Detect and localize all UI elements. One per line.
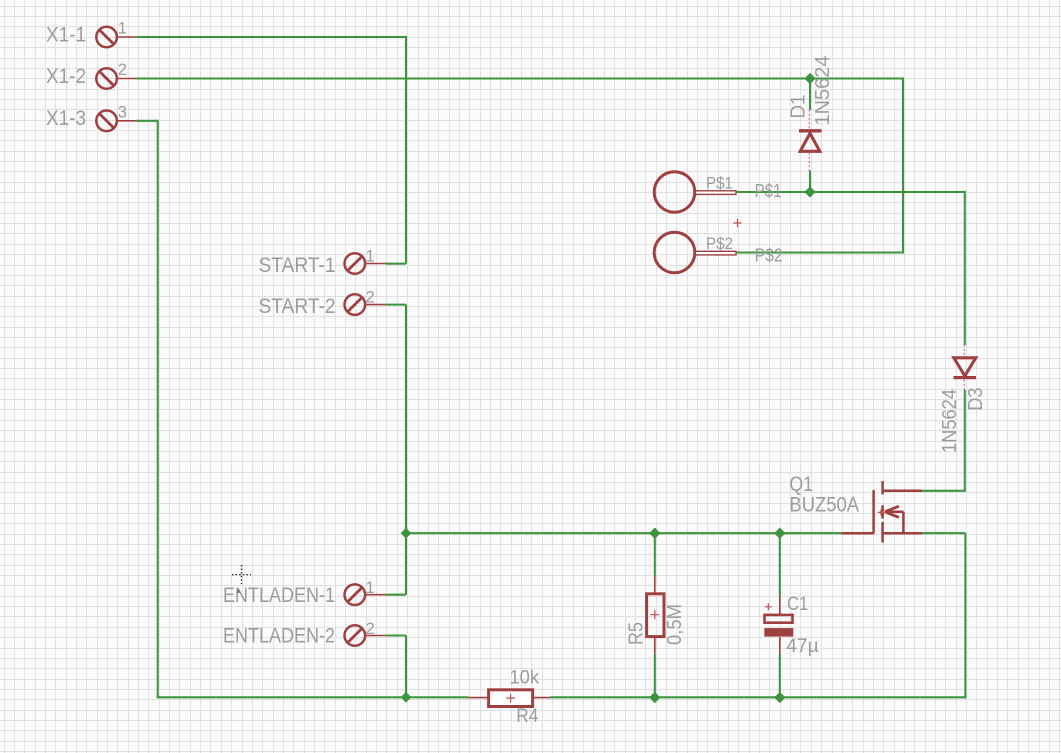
svg-text:ENTLADEN-1: ENTLADEN-1	[223, 583, 335, 607]
terminal START-2	[345, 294, 386, 315]
svg-text:0,5M: 0,5M	[664, 604, 686, 645]
wire R5 top segment	[654, 533, 656, 576]
resistor R5	[647, 577, 664, 655]
svg-text:START-2: START-2	[259, 294, 336, 318]
svg-text:R5: R5	[626, 622, 648, 645]
svg-text:R4: R4	[516, 706, 538, 727]
svg-text:10k: 10k	[510, 667, 540, 688]
wire ENTLADEN-2 stub	[386, 634, 407, 636]
wire net P$1 horizontal	[737, 191, 965, 193]
wire D3 bottom segment	[964, 390, 966, 491]
terminal X1-2	[96, 68, 136, 89]
terminal ENTLADEN-2	[345, 625, 386, 646]
svg-text:1N5624: 1N5624	[812, 56, 834, 126]
svg-text:P$1: P$1	[755, 180, 782, 201]
svg-text:C1: C1	[787, 593, 808, 615]
mouse crosshair cursor	[232, 565, 251, 594]
svg-text:P$1: P$1	[706, 175, 733, 193]
terminal ENTLADEN-1	[345, 584, 386, 605]
wire R5 bottom segment	[654, 655, 656, 698]
wire C1 top segment	[779, 533, 781, 596]
pad P$2	[654, 232, 736, 273]
junction gate net / R5 top	[649, 528, 660, 539]
terminal X1-1	[96, 27, 136, 48]
wire net X1-1 horizontal	[137, 36, 406, 38]
wire START-2 vertical down to ENTLADEN-1	[405, 305, 407, 595]
wire source connect	[922, 532, 965, 534]
junction bottom net / C1 bottom	[774, 692, 785, 703]
svg-text:2: 2	[366, 620, 375, 638]
svg-text:D3: D3	[965, 388, 987, 411]
wire bottom net left of R4	[157, 696, 469, 698]
svg-text:P$2: P$2	[706, 235, 733, 253]
junction D1 bottom on net P$1	[804, 186, 815, 197]
junction bottom net / ENTLADEN-2 vertical	[401, 692, 412, 703]
junction bottom net / R5 bottom	[649, 692, 660, 703]
wire ENTLADEN-2 vertical down	[405, 636, 407, 698]
svg-text:1: 1	[118, 20, 127, 38]
wire net X1-1 vertical to START-1	[405, 36, 407, 264]
svg-text:X1-3: X1-3	[46, 106, 86, 130]
wire net X1-3 vertical left	[157, 120, 159, 698]
wire D1 top segment	[809, 79, 811, 111]
origin cross of P$ device	[734, 219, 742, 227]
wire net X1-3 horizontal stub	[137, 120, 158, 122]
wire ENTLADEN-1 stub	[386, 594, 407, 596]
wire bottom net right of R4	[550, 696, 965, 698]
svg-text:START-1: START-1	[259, 253, 336, 277]
svg-text:1: 1	[366, 579, 375, 597]
svg-text:P$2: P$2	[755, 245, 783, 266]
wire C1 bottom segment	[779, 655, 781, 698]
wire D1 bottom segment	[809, 171, 811, 193]
pad P$1	[654, 172, 736, 213]
svg-text:ENTLADEN-2: ENTLADEN-2	[223, 624, 335, 648]
wire gate net horizontal	[406, 532, 842, 534]
wire net X1-2 vertical right	[902, 77, 904, 252]
wire START-2 stub	[386, 304, 407, 306]
svg-text:2: 2	[366, 288, 375, 306]
wire net P$2 horizontal	[737, 251, 904, 253]
svg-text:X1-1: X1-1	[46, 23, 86, 47]
svg-text:1: 1	[366, 248, 375, 266]
junction gate net / C1 top	[774, 528, 785, 539]
terminal START-1	[345, 253, 386, 274]
wire source vertical down right	[964, 533, 966, 698]
svg-text:1N5624: 1N5624	[939, 389, 961, 453]
svg-text:BUZ50A: BUZ50A	[789, 493, 859, 517]
svg-text:3: 3	[118, 103, 127, 121]
svg-text:2: 2	[118, 61, 127, 79]
svg-text:47µ: 47µ	[786, 635, 818, 657]
svg-text:D1: D1	[788, 95, 810, 119]
junction gate net / START-2 vertical	[401, 528, 412, 539]
capacitor C1	[764, 596, 793, 655]
junction D1 top on net X1-2	[804, 73, 815, 84]
svg-text:X1-2: X1-2	[46, 64, 86, 88]
wire START-1 stub	[386, 263, 407, 265]
transistor Q1 MOSFET	[842, 481, 923, 543]
resistor R4	[468, 690, 550, 707]
diode D3	[954, 345, 977, 391]
terminal X1-3	[96, 111, 136, 132]
wire D3 top segment	[964, 191, 966, 345]
wire net X1-2 horizontal	[137, 77, 903, 79]
wire drain connect	[922, 490, 966, 492]
diode D1	[799, 110, 822, 172]
